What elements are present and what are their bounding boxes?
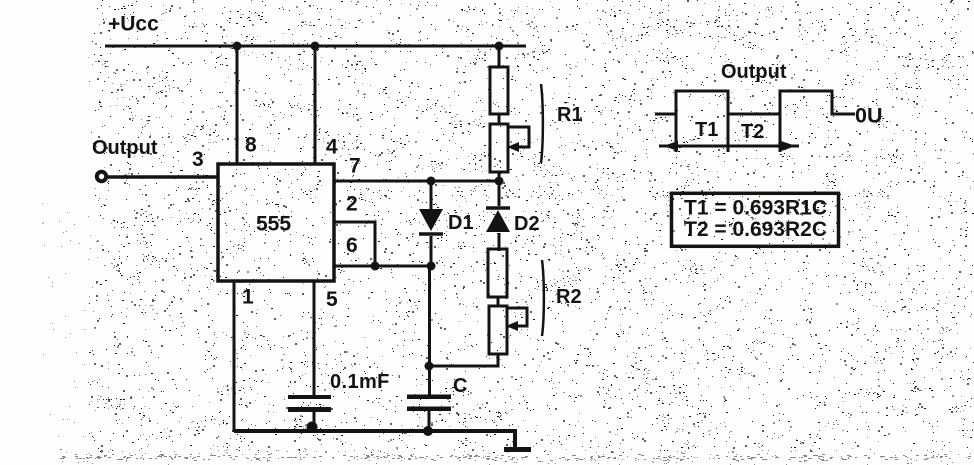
svg-text:4: 4 (326, 136, 338, 159)
wiper arrowhead R2 (506, 321, 518, 331)
IC U1: 555 timer body (218, 164, 334, 281)
wire: D2 to R2 (498, 233, 501, 251)
bracket R1 (541, 84, 543, 163)
wire: D1 to node below (430, 236, 433, 267)
svg-text:3: 3 (192, 148, 204, 171)
diode D1 (419, 209, 443, 234)
node: rail junction pin 8 (233, 42, 242, 51)
svg-text:555: 555 (256, 213, 291, 236)
node: C ground junction (423, 426, 433, 436)
wire: +Ucc top rail (105, 45, 526, 48)
svg-text:Output: Output (721, 61, 787, 83)
svg-text:T2: T2 (741, 121, 764, 143)
wire: pin 3 output lead (106, 175, 218, 179)
capacitor C (407, 395, 451, 412)
svg-text:2: 2 (346, 193, 358, 216)
resistor R2 fixed section (488, 249, 507, 297)
dimension line T1+T2 (659, 145, 799, 148)
wire: pin7 node to D2 (498, 181, 501, 206)
node: pin7 - R1/D2 junction (495, 177, 504, 186)
wire: rail to R1 (498, 46, 501, 67)
node: pin6 - D1 branch junction (427, 262, 436, 271)
svg-text:7: 7 (349, 155, 361, 178)
waveform trace (655, 91, 855, 152)
wire: pin 5 to capacitor 0.1mF (313, 281, 316, 395)
svg-text:D1: D1 (448, 212, 474, 234)
svg-text:1: 1 (242, 286, 254, 309)
bracket R2 (542, 260, 544, 336)
potentiometer R1 adjustable section (490, 124, 508, 172)
wire: R1 to pin7 node (498, 172, 501, 181)
wire: R2 bottom to C node (429, 354, 498, 366)
formula box (672, 193, 839, 246)
node: rail junction R1 (495, 42, 504, 51)
svg-text:8: 8 (245, 134, 257, 157)
svg-text:T1 = 0.693R1C: T1 = 0.693R1C (684, 197, 827, 220)
svg-text:6: 6 (346, 234, 358, 257)
svg-text:T2 = 0.693R2C: T2 = 0.693R2C (684, 218, 827, 241)
dimension arrowhead right (781, 141, 796, 151)
waveform edge extension T2 end (779, 114, 782, 152)
wire: pin 2 loop (334, 222, 375, 266)
waveform edge extension T1/T2 boundary (727, 114, 730, 152)
terminal: output (97, 172, 106, 181)
dimension arrowhead left (663, 141, 678, 151)
waveform edge extension T1 start (675, 114, 678, 152)
wire: C capacitor to ground rail (428, 410, 431, 432)
wiper arm R2 (507, 308, 527, 326)
ground symbol (504, 447, 531, 452)
wiper arrowhead R1 (507, 142, 519, 152)
wire: ground rail (234, 431, 515, 449)
node: pin7 - D1 junction (427, 177, 436, 186)
svg-text:T1: T1 (695, 119, 718, 141)
svg-text:0.1mF: 0.1mF (330, 371, 390, 393)
svg-text:D2: D2 (514, 213, 540, 235)
svg-text:+Ucc: +Ucc (108, 13, 159, 36)
diode D2 (486, 208, 510, 232)
node: rail junction pin 4 (311, 42, 320, 51)
svg-text:R2: R2 (556, 286, 582, 308)
wire: node to capacitor C (428, 266, 431, 395)
wiper arm R1 (508, 127, 529, 147)
node: 0.1mF ground junction (307, 422, 318, 433)
wire: D1 branch vertical (430, 181, 433, 209)
wire: pin 7 lead (334, 180, 500, 183)
svg-text:Output: Output (92, 137, 158, 159)
resistor R1 fixed section (490, 67, 508, 114)
svg-text:5: 5 (326, 288, 338, 311)
wire: pin 4 to rail (314, 46, 317, 165)
potentiometer R2 adjustable section (489, 306, 507, 354)
svg-text:R1: R1 (557, 104, 583, 126)
wire: R1 internal link (498, 114, 501, 124)
wire: pin 8 to rail (236, 46, 239, 165)
wire: pin 1 to ground rail (233, 281, 236, 432)
node: R2 bottom - C junction (425, 362, 434, 371)
capacitor 0.1mF (288, 395, 331, 412)
svg-text:C: C (453, 375, 467, 397)
wire: R2 internal link (497, 297, 500, 306)
node: pin2/pin6 corner junction (371, 262, 380, 271)
svg-text:0U: 0U (855, 104, 882, 128)
wire: 0.1mF capacitor to ground rail (313, 411, 316, 432)
wire: pin 6 lead to D1 branch (334, 265, 431, 268)
